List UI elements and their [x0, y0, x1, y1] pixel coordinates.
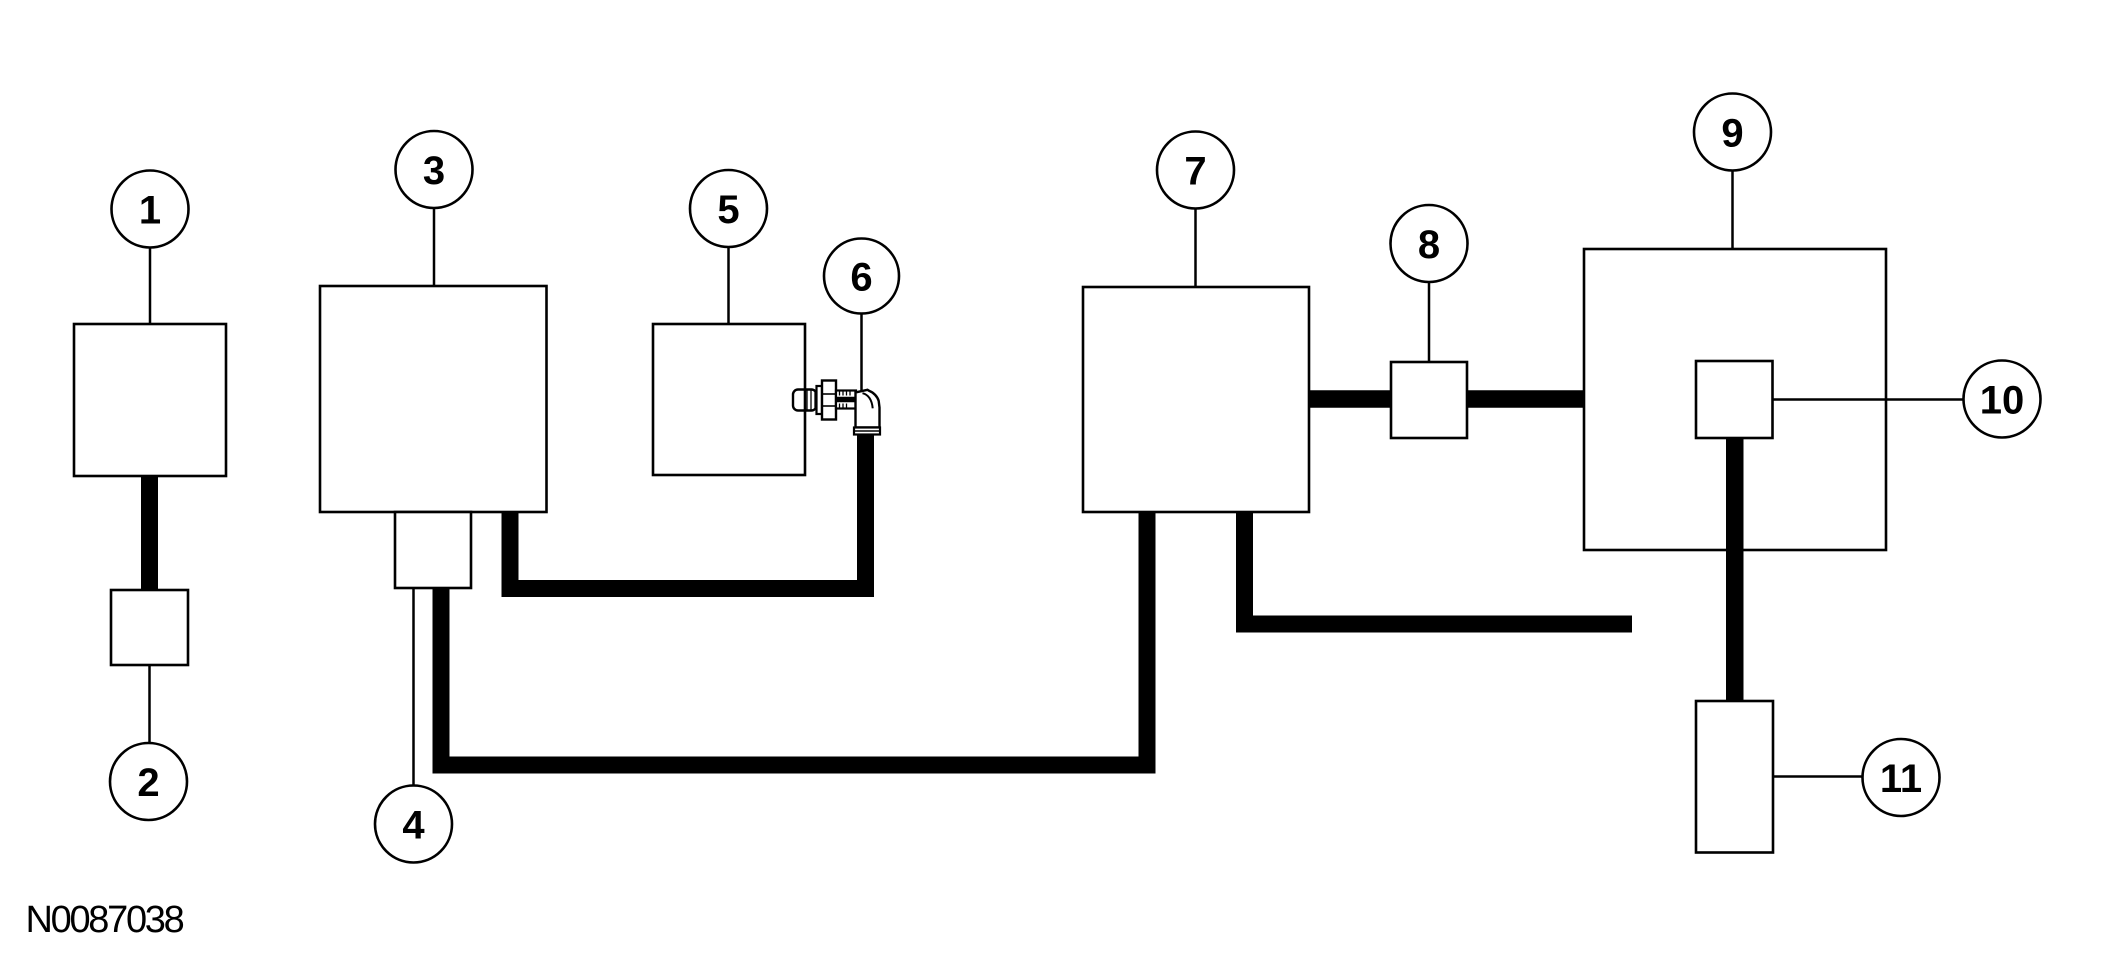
fitting item 6: elbow body	[856, 390, 880, 428]
box item 11	[1696, 701, 1773, 853]
box item 3	[320, 286, 547, 512]
fitting item 6: hose collar	[854, 428, 880, 435]
hose: item10 box down to item11 box	[1726, 438, 1744, 701]
leader line callout 6	[860, 314, 863, 393]
svg-text:4: 4	[402, 804, 425, 848]
svg-text:10: 10	[1980, 379, 2025, 423]
callout 1	[112, 171, 189, 248]
leader line callout 9	[1731, 171, 1734, 250]
fitting item 6: threaded stem	[836, 391, 858, 409]
svg-text:N0087038: N0087038	[26, 899, 184, 941]
box item 7	[1083, 287, 1309, 512]
callout 2	[110, 743, 187, 820]
leader line callout 8	[1428, 282, 1431, 362]
leader line callout 11	[1773, 775, 1863, 778]
figure number label N0087038	[26, 899, 184, 941]
leader line callout 7	[1194, 209, 1197, 288]
callout 8	[1391, 205, 1468, 282]
hose: item8 box to item9 box	[1467, 390, 1584, 408]
svg-text:3: 3	[423, 149, 445, 193]
fitting item 6: nut	[822, 381, 836, 420]
box item 1	[74, 324, 226, 476]
hose: item4 box down, right, up to item7 box bottom-left	[441, 512, 1147, 765]
callout 5	[690, 170, 767, 247]
svg-text:2: 2	[137, 761, 159, 805]
callout 10	[1964, 361, 2041, 438]
leader line callout 5	[727, 247, 730, 324]
callout 11	[1863, 739, 1940, 816]
box item 10 (inside item 9)	[1696, 361, 1773, 438]
callout 4	[375, 786, 452, 863]
box item 5	[653, 324, 805, 475]
svg-text:9: 9	[1721, 112, 1743, 156]
hose: item3 box bottom down, right, up to elbow fitting	[510, 434, 866, 589]
svg-text:7: 7	[1184, 150, 1206, 194]
leader line callout 1	[149, 248, 152, 325]
svg-text:6: 6	[850, 256, 872, 300]
box item 4	[395, 512, 471, 588]
svg-text:8: 8	[1418, 223, 1440, 267]
leader line callout 3	[433, 208, 436, 286]
box item 9	[1584, 249, 1886, 550]
leader line callout 10	[1773, 398, 1964, 401]
svg-text:11: 11	[1880, 757, 1922, 801]
hose: item1 box to item2 box	[141, 475, 158, 590]
callout 9	[1694, 94, 1771, 171]
svg-text:5: 5	[717, 188, 739, 232]
box item 2	[111, 590, 188, 665]
hose: item7 box bottom-right down and right to open end	[1245, 512, 1633, 624]
hose: item7 box right edge to item8 box	[1309, 390, 1391, 408]
callout 3	[396, 131, 473, 208]
svg-text:1: 1	[139, 189, 161, 233]
callout 6	[824, 239, 899, 314]
fitting item 6: washer	[817, 386, 823, 414]
callout 7	[1157, 132, 1234, 209]
leader line callout 2	[148, 665, 151, 743]
box item 8	[1391, 362, 1467, 438]
leader line callout 4	[412, 588, 415, 786]
fitting item 6: threaded nipple on tank	[793, 390, 817, 411]
